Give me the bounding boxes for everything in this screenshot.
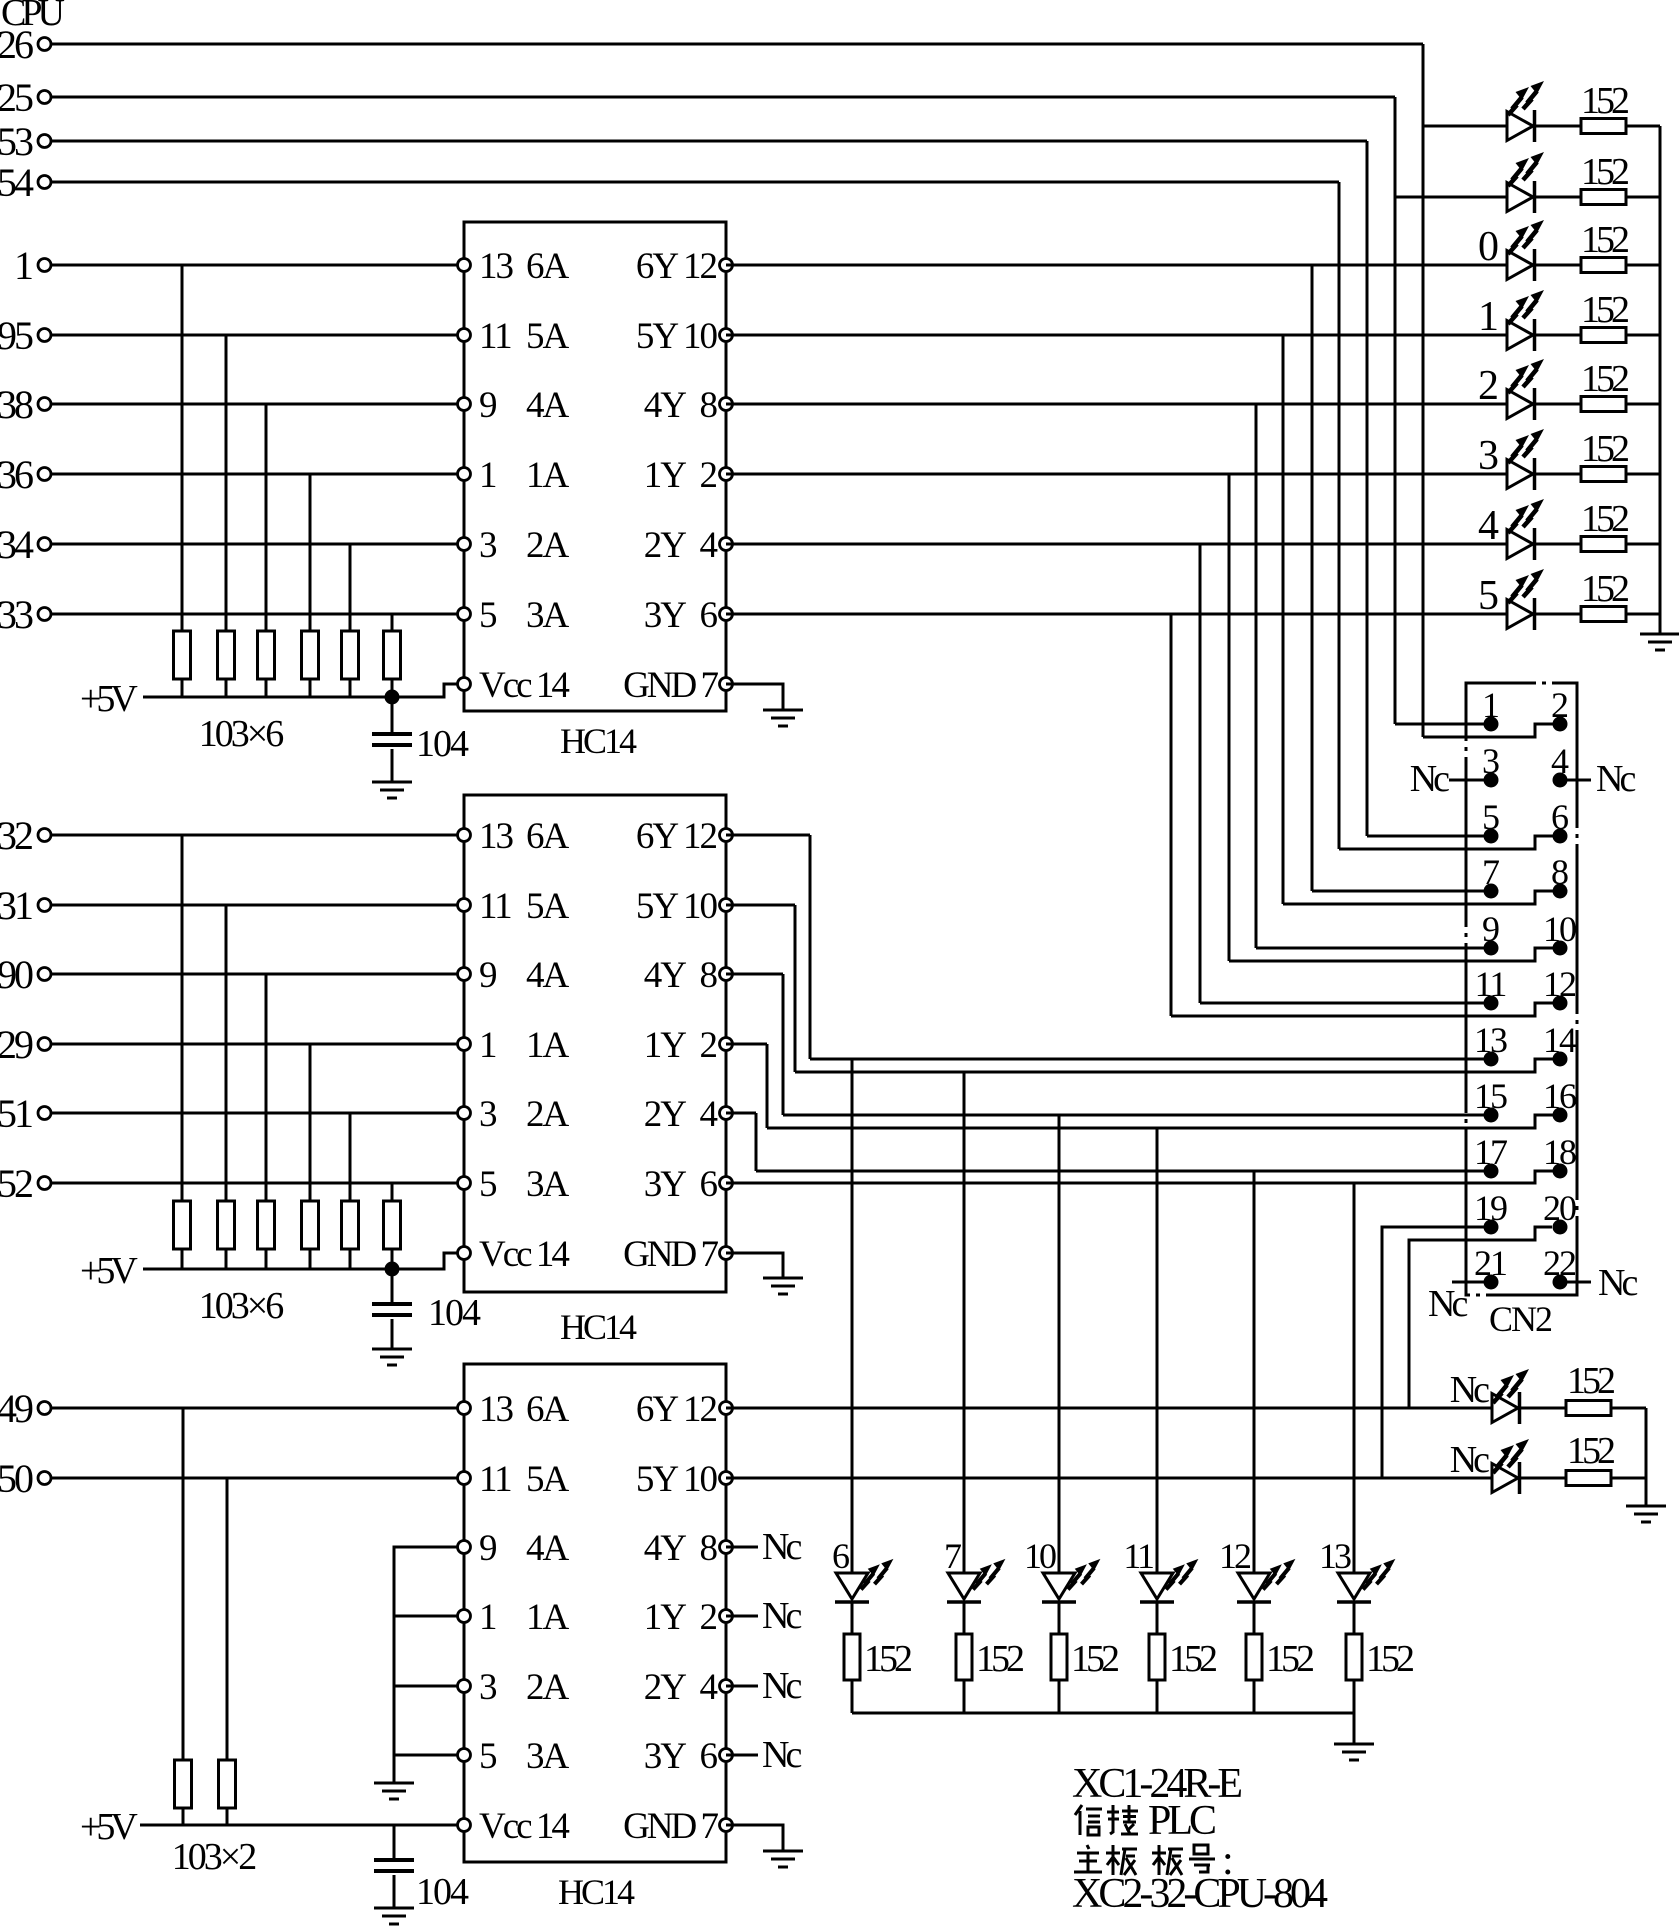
U3 output pin circle 0 bbox=[720, 1402, 733, 1415]
wire input 29 to U2 bbox=[51, 1043, 464, 1046]
wire CPU26 jog into pin2 bbox=[1423, 724, 1553, 737]
svg-text:Nc: Nc bbox=[762, 1595, 801, 1637]
U2 output pin circle 0 bbox=[720, 829, 733, 842]
resistor 103 pull-up 4 (U1) bbox=[302, 631, 319, 679]
CN2 pin 2 bbox=[1553, 717, 1568, 732]
wire resistor D14 to bus bbox=[1353, 1680, 1356, 1713]
wire resistor D2 to bus bbox=[1626, 196, 1660, 199]
svg-text:3A: 3A bbox=[526, 1736, 570, 1777]
U3 output Nc stub 0 bbox=[726, 1546, 758, 1549]
wire U1 output row 2 to LED bbox=[726, 403, 1507, 406]
svg-text:1Y 2: 1Y 2 bbox=[644, 455, 717, 496]
svg-text:Nc: Nc bbox=[1450, 1369, 1489, 1411]
wire U3 6Y12 row bbox=[726, 1407, 1492, 1410]
resistor 152 (D7) bbox=[1581, 537, 1626, 552]
wire pull-up tap 31 bbox=[225, 905, 228, 1201]
wire resistor D8 to bus bbox=[1626, 613, 1660, 616]
svg-text:3A: 3A bbox=[526, 1164, 570, 1205]
wire input 51 to U2 bbox=[51, 1112, 464, 1115]
svg-text:6Y 12: 6Y 12 bbox=[636, 816, 717, 857]
label 主板 板号: bbox=[1074, 1845, 1102, 1872]
svg-text:52: 52 bbox=[0, 1161, 32, 1206]
svg-text:Nc: Nc bbox=[1450, 1439, 1489, 1481]
U3 pin 5 circle bbox=[458, 1749, 471, 1762]
wire U2 5Y10 to corner bbox=[726, 904, 795, 907]
terminal circle 33 bbox=[38, 608, 51, 621]
wire input 32 to U2 bbox=[51, 834, 464, 837]
terminal circle 1 bbox=[38, 259, 51, 272]
U3 output pin circle 1 bbox=[720, 1472, 733, 1485]
wire U2 2Y4 down bbox=[755, 1113, 758, 1171]
LED D7 bbox=[1507, 528, 1535, 560]
capacitor C1 104 bbox=[372, 734, 412, 745]
wire pull-up tap 95 bbox=[225, 335, 228, 631]
junction +5V/cap U1 bbox=[385, 690, 400, 705]
LED D10 bbox=[947, 1573, 981, 1602]
wire U2 4Y8 to corner bbox=[726, 973, 783, 976]
svg-text:2Y 4: 2Y 4 bbox=[644, 1094, 718, 1135]
CN2 pin 16 bbox=[1553, 1108, 1568, 1123]
wire resistor D9 to bus bbox=[851, 1680, 854, 1713]
terminal circle 34 bbox=[38, 538, 51, 551]
svg-text:25: 25 bbox=[0, 75, 33, 120]
svg-text:152: 152 bbox=[1567, 1430, 1614, 1472]
U2 GND pin circle bbox=[720, 1247, 733, 1260]
capacitor C3 104 bbox=[374, 1860, 414, 1871]
svg-text:GND 7: GND 7 bbox=[623, 1234, 718, 1275]
svg-text:6A: 6A bbox=[526, 1389, 570, 1430]
wire tap to LED D14 bbox=[1353, 1183, 1356, 1573]
U2 output pin circle 4 bbox=[720, 1107, 733, 1120]
resistor 152 (D9) bbox=[844, 1634, 860, 1680]
svg-text:5A: 5A bbox=[526, 1459, 570, 1500]
resistor 152 (D2) bbox=[1581, 190, 1626, 205]
U3 pin 9 circle bbox=[458, 1541, 471, 1554]
svg-text:GND 7: GND 7 bbox=[623, 665, 718, 706]
svg-text:1: 1 bbox=[1478, 294, 1497, 340]
U2 Vcc pin circle bbox=[458, 1247, 471, 1260]
CN2 pin 1 bbox=[1484, 717, 1499, 732]
svg-text:152: 152 bbox=[1366, 1638, 1413, 1680]
U3 GND pin circle bbox=[720, 1819, 733, 1832]
svg-text:51: 51 bbox=[0, 1091, 32, 1136]
svg-text:4Y 8: 4Y 8 bbox=[644, 385, 718, 426]
wire resistor D7 to bus bbox=[1626, 543, 1660, 546]
op-amp U2 HC14 body bbox=[464, 795, 726, 1292]
svg-text:6: 6 bbox=[832, 1536, 849, 1576]
svg-text:PLC: PLC bbox=[1148, 1798, 1215, 1844]
wire U1 output 3 jog into CN2 bbox=[1229, 948, 1553, 961]
svg-text:54: 54 bbox=[0, 160, 34, 205]
wire resistor 2 to +5V rail (U1) bbox=[225, 679, 228, 697]
U3 output pin circle 5 bbox=[720, 1749, 733, 1762]
wire tap to LED D12 bbox=[1156, 1128, 1159, 1573]
svg-text:1: 1 bbox=[14, 243, 32, 288]
wire CPU26 vertical to CN2 pin2 bbox=[1422, 44, 1425, 737]
svg-text:+5V: +5V bbox=[80, 1250, 138, 1292]
U1 output pin circle 2 bbox=[720, 398, 733, 411]
svg-text:32: 32 bbox=[0, 813, 32, 858]
ground Nc LED bus bbox=[1626, 1506, 1666, 1522]
resistor 152 (D13) bbox=[1246, 1634, 1262, 1680]
CN2 pin21 Nc wire bbox=[1452, 1281, 1484, 1284]
terminal circle 95 bbox=[38, 329, 51, 342]
svg-text:3: 3 bbox=[479, 1667, 497, 1708]
wire cap C2 lower lead bbox=[391, 1319, 394, 1349]
svg-text:Nc: Nc bbox=[762, 1526, 801, 1568]
terminal circle 31 bbox=[38, 899, 51, 912]
U3 output Nc stub 1 bbox=[726, 1615, 758, 1618]
svg-text:4: 4 bbox=[1478, 503, 1499, 549]
wire LED D14 to resistor bbox=[1353, 1602, 1356, 1634]
wire CPU54 vertical to CN2 pin6 bbox=[1338, 182, 1341, 849]
wire U1 output 4 vertical to CN2 bbox=[1199, 544, 1202, 1003]
svg-text:2Y 4: 2Y 4 bbox=[644, 525, 718, 566]
U2 output pin circle 2 bbox=[720, 968, 733, 981]
wire LED D8 to resistor bbox=[1536, 613, 1581, 616]
svg-text:152: 152 bbox=[1567, 1360, 1614, 1402]
wire resistor 3 to +5V rail (U1) bbox=[265, 679, 268, 697]
wire LED D16 to resistor bbox=[1521, 1477, 1566, 1480]
wire net to CN2 pin14 bbox=[795, 1059, 1553, 1072]
wire U1 output 0 into CN2 bbox=[1312, 890, 1484, 893]
terminal circle 52 bbox=[38, 1177, 51, 1190]
svg-text:GND 7: GND 7 bbox=[623, 1806, 718, 1847]
wire resistor D4 to bus bbox=[1626, 334, 1660, 337]
U2 output pin circle 1 bbox=[720, 899, 733, 912]
resistor 152 (D4) bbox=[1581, 328, 1626, 343]
ground at U2 GND bbox=[763, 1278, 803, 1294]
CN2 pin 19 bbox=[1484, 1220, 1499, 1235]
svg-text:Vcc 14: Vcc 14 bbox=[479, 1234, 569, 1275]
CN2 pin 15 bbox=[1484, 1108, 1499, 1123]
U3 pin 11 circle bbox=[458, 1472, 471, 1485]
wire input 1 to U1 bbox=[51, 264, 464, 267]
svg-text:11: 11 bbox=[1123, 1536, 1153, 1576]
wire tap to LED D11 bbox=[1058, 1115, 1061, 1573]
svg-text:Nc: Nc bbox=[762, 1665, 801, 1707]
terminal circle 36 bbox=[38, 468, 51, 481]
LED D1 bbox=[1507, 110, 1535, 142]
wire LED D6 to resistor bbox=[1536, 473, 1581, 476]
wire pull-up tap 51 bbox=[349, 1113, 352, 1201]
wire resistor 1 to +5V rail (U1) bbox=[181, 679, 184, 697]
wire +5V rail U3 bbox=[140, 1824, 458, 1827]
LED D11 bbox=[1042, 1573, 1076, 1602]
ground at U1 GND bbox=[763, 710, 803, 726]
CN2 pin 18 bbox=[1553, 1164, 1568, 1179]
svg-text:4Y 8: 4Y 8 bbox=[644, 955, 718, 996]
wire pull-up tap 32 bbox=[181, 835, 184, 1201]
U1 output pin circle 3 bbox=[720, 468, 733, 481]
wire CPU54 horizontal bbox=[51, 181, 1339, 184]
wire U1 output row 4 to LED bbox=[726, 543, 1507, 546]
wire pull-up tap 90 bbox=[265, 974, 268, 1201]
wire bottom LED ground bus bbox=[852, 1712, 1354, 1715]
wire resistor D11 to bus bbox=[1058, 1680, 1061, 1713]
CN2 pin22 Nc wire bbox=[1567, 1281, 1591, 1284]
terminal circle 32 bbox=[38, 829, 51, 842]
svg-text:10: 10 bbox=[1024, 1536, 1056, 1576]
resistor 152 (D5) bbox=[1581, 397, 1626, 412]
resistor 152 (D12) bbox=[1149, 1634, 1165, 1680]
LED D13 bbox=[1237, 1573, 1271, 1602]
wire CPU25 into pin1 bbox=[1395, 723, 1484, 726]
LED D2 bbox=[1507, 181, 1535, 213]
LED D5 bbox=[1507, 388, 1535, 420]
svg-text:7: 7 bbox=[944, 1536, 961, 1576]
connector CN2 body bbox=[1466, 683, 1577, 1295]
svg-text:152: 152 bbox=[1581, 498, 1628, 540]
resistor 152 (D16) bbox=[1566, 1471, 1611, 1486]
svg-text:2A: 2A bbox=[526, 525, 570, 566]
svg-text:33: 33 bbox=[0, 592, 33, 637]
LED D15 bbox=[1492, 1392, 1520, 1424]
wire CPU25 horizontal bbox=[51, 96, 1395, 99]
wire U1 output 1 vertical to CN2 bbox=[1282, 335, 1285, 904]
wire U1 output 2 into CN2 bbox=[1256, 947, 1484, 950]
wire +5V rail to Vcc U2 bbox=[392, 1253, 458, 1269]
wire U1 output 1 jog into CN2 bbox=[1283, 891, 1553, 904]
wire input 52 to U2 bbox=[51, 1182, 464, 1185]
wire LED ground bus (top) bbox=[1659, 126, 1662, 634]
wire CN2 pin20 jog bbox=[1409, 1227, 1552, 1408]
svg-text:4A: 4A bbox=[526, 1528, 570, 1569]
U1 pin 3 circle bbox=[458, 538, 471, 551]
wire U2 2Y4 to corner bbox=[726, 1112, 756, 1115]
wire net to CN2 pin15 bbox=[783, 1114, 1484, 1117]
wire pull-up tap 34 bbox=[349, 544, 352, 631]
U1 GND pin circle bbox=[720, 678, 733, 691]
wire U2 6Y12 to corner bbox=[726, 834, 810, 837]
wire U1 output row 1 to LED bbox=[726, 334, 1507, 337]
wire pull-up tap 29 bbox=[309, 1044, 312, 1201]
U1 pin 1 circle bbox=[458, 468, 471, 481]
LED D12 bbox=[1140, 1573, 1174, 1602]
svg-text:2A: 2A bbox=[526, 1667, 570, 1708]
svg-text:1: 1 bbox=[479, 1025, 496, 1066]
wire LED D9 to resistor bbox=[851, 1602, 854, 1634]
svg-text:4A: 4A bbox=[526, 385, 570, 426]
svg-text:152: 152 bbox=[1169, 1638, 1216, 1680]
svg-text:90: 90 bbox=[0, 952, 33, 997]
svg-text:9: 9 bbox=[479, 385, 496, 426]
svg-text:Vcc 14: Vcc 14 bbox=[479, 1806, 569, 1847]
U2 pin 1 circle bbox=[458, 1038, 471, 1051]
CN2 pin 20 bbox=[1553, 1220, 1568, 1235]
LED D4 bbox=[1507, 319, 1535, 351]
resistor 103 pull-up 3 (U1) bbox=[258, 631, 275, 679]
U3 output pin circle 2 bbox=[720, 1541, 733, 1554]
svg-text:13: 13 bbox=[479, 246, 514, 287]
wire +5V rail U1 bbox=[143, 696, 392, 699]
svg-text:3: 3 bbox=[479, 525, 497, 566]
wire U1 output row 0 to LED bbox=[726, 264, 1507, 267]
wire resistor D15 to bus bbox=[1611, 1407, 1646, 1410]
svg-text:1A: 1A bbox=[526, 455, 570, 496]
svg-text:+5V: +5V bbox=[80, 678, 138, 720]
svg-text:4A: 4A bbox=[526, 955, 570, 996]
svg-text:6A: 6A bbox=[526, 816, 570, 857]
svg-text:9: 9 bbox=[479, 955, 496, 996]
resistor 152 (D11) bbox=[1051, 1634, 1067, 1680]
svg-text:3A: 3A bbox=[526, 595, 570, 636]
svg-text:Nc: Nc bbox=[1428, 1283, 1467, 1325]
wire pull-up tap 50 bbox=[226, 1478, 229, 1760]
wire cap C1 lower lead bbox=[391, 749, 394, 782]
ground top LED bus bbox=[1640, 634, 1679, 650]
svg-text:12: 12 bbox=[1219, 1536, 1251, 1576]
svg-text:1A: 1A bbox=[526, 1597, 570, 1638]
U1 output pin circle 1 bbox=[720, 329, 733, 342]
svg-text:2A: 2A bbox=[526, 1094, 570, 1135]
wire resistor 2 to +5V rail (U3) bbox=[226, 1808, 229, 1825]
CN2 pin 22 bbox=[1553, 1275, 1568, 1290]
ground below C2 bbox=[372, 1349, 412, 1365]
wire LED D13 to resistor bbox=[1253, 1602, 1256, 1634]
wire U3 5Y10 row bbox=[726, 1477, 1492, 1480]
svg-text:6A: 6A bbox=[526, 246, 570, 287]
wire U1 output row 5 to LED bbox=[726, 613, 1507, 616]
svg-text:5: 5 bbox=[479, 1736, 497, 1777]
U3 output pin circle 3 bbox=[720, 1610, 733, 1623]
resistor 103 pull-up 1 (U3) bbox=[175, 1760, 192, 1808]
wire LED D10 to resistor bbox=[963, 1602, 966, 1634]
wire LED D5 to resistor bbox=[1536, 403, 1581, 406]
ground below C3 bbox=[374, 1908, 414, 1924]
svg-text:152: 152 bbox=[1581, 428, 1628, 470]
ground unused inputs U3 bbox=[374, 1783, 414, 1799]
svg-text:3: 3 bbox=[1478, 433, 1498, 479]
svg-text:103×6: 103×6 bbox=[199, 713, 283, 755]
U2 pin 9 circle bbox=[458, 968, 471, 981]
svg-text:3: 3 bbox=[479, 1094, 497, 1135]
resistor 103 pull-up 5 (U2) bbox=[342, 1201, 359, 1249]
svg-text:103×2: 103×2 bbox=[172, 1836, 255, 1878]
svg-text:38: 38 bbox=[0, 382, 33, 427]
resistor 103 pull-up 2 (U1) bbox=[218, 631, 235, 679]
wire CPU54 jog into pin6 bbox=[1339, 836, 1553, 849]
wire resistor D13 to bus bbox=[1253, 1680, 1256, 1713]
svg-text:5: 5 bbox=[479, 595, 497, 636]
svg-text:3Y 6: 3Y 6 bbox=[644, 1164, 718, 1205]
CN2 pin 10 bbox=[1553, 941, 1568, 956]
resistor 103 pull-up 2 (U3) bbox=[219, 1760, 236, 1808]
ground at U3 GND bbox=[763, 1851, 803, 1867]
wire U3 unused input chain bbox=[394, 1547, 457, 1783]
wire resistor D6 to bus bbox=[1626, 473, 1660, 476]
U1 output pin circle 5 bbox=[720, 608, 733, 621]
svg-text:152: 152 bbox=[976, 1638, 1023, 1680]
wire U1 output row 3 to LED bbox=[726, 473, 1507, 476]
wire input 50 to U3 bbox=[51, 1477, 464, 1480]
wire net to CN2 pin13 bbox=[810, 1058, 1484, 1061]
CN2 pin 12 bbox=[1553, 996, 1568, 1011]
wire input 31 to U2 bbox=[51, 904, 464, 907]
wire +5V rail to Vcc U1 bbox=[392, 684, 458, 697]
wire U1 output 5 vertical to CN2 bbox=[1170, 614, 1173, 1016]
wire U2 3Y6 to CN2 pin18 bbox=[726, 1171, 1553, 1183]
resistor 152 (D14) bbox=[1346, 1634, 1362, 1680]
wire input 49 to U3 bbox=[51, 1407, 464, 1410]
wire cap C2 upper lead bbox=[391, 1269, 394, 1304]
U1 pin 9 circle bbox=[458, 398, 471, 411]
resistor 103 pull-up 1 (U1) bbox=[174, 631, 191, 679]
U1 pin 11 circle bbox=[458, 329, 471, 342]
svg-text:26: 26 bbox=[0, 22, 33, 67]
CN2 pin 7 bbox=[1484, 884, 1499, 899]
svg-text:Vcc 14: Vcc 14 bbox=[479, 665, 569, 706]
svg-text:0: 0 bbox=[1478, 224, 1498, 270]
terminal circle 51 bbox=[38, 1107, 51, 1120]
U2 pin 11 circle bbox=[458, 899, 471, 912]
U2 output pin circle 5 bbox=[720, 1177, 733, 1190]
svg-text:13: 13 bbox=[479, 816, 514, 857]
wire CPU53 into pin5 bbox=[1367, 835, 1484, 838]
svg-text:1: 1 bbox=[479, 455, 496, 496]
wire pull-up tap 49 bbox=[182, 1408, 185, 1760]
svg-text:6Y 12: 6Y 12 bbox=[636, 246, 717, 287]
svg-text:2Y 4: 2Y 4 bbox=[644, 1667, 718, 1708]
svg-text:11: 11 bbox=[479, 316, 511, 357]
U3 Vcc pin circle bbox=[458, 1819, 471, 1832]
resistor 103 pull-up 6 (U1) bbox=[384, 631, 401, 679]
svg-text:11: 11 bbox=[479, 1459, 511, 1500]
svg-text:Nc: Nc bbox=[1598, 1262, 1637, 1304]
wire U1 output 0 vertical to CN2 bbox=[1311, 265, 1314, 891]
svg-text:Nc: Nc bbox=[762, 1734, 801, 1776]
svg-text:95: 95 bbox=[0, 313, 33, 358]
wire resistor D16 to bus bbox=[1611, 1477, 1646, 1480]
wire LED D1 to resistor bbox=[1536, 125, 1581, 128]
LED D8 bbox=[1507, 598, 1535, 630]
svg-text:9: 9 bbox=[479, 1528, 496, 1569]
terminal circle CPU 26 bbox=[38, 38, 51, 51]
wire cap C3 lower lead bbox=[393, 1875, 396, 1908]
wire input 95 to U1 bbox=[51, 334, 464, 337]
terminal circle 29 bbox=[38, 1038, 51, 1051]
terminal circle 50 bbox=[38, 1472, 51, 1485]
wire net to CN2 pin16 bbox=[767, 1115, 1553, 1128]
svg-text:XC2-32-CPU-804: XC2-32-CPU-804 bbox=[1072, 1871, 1328, 1917]
wire to LED D2 bbox=[1395, 196, 1507, 199]
svg-text:1: 1 bbox=[479, 1597, 496, 1638]
U3 output Nc stub 2 bbox=[726, 1685, 758, 1688]
svg-text:152: 152 bbox=[1071, 1638, 1118, 1680]
svg-text:34: 34 bbox=[0, 522, 34, 567]
wire LED D15 to resistor bbox=[1521, 1407, 1566, 1410]
label 信捷 PLC bbox=[1075, 1805, 1102, 1835]
wire tap to LED D9 bbox=[851, 1059, 854, 1573]
wire resistor 6 to +5V rail (U2) bbox=[391, 1249, 394, 1269]
svg-text:HC14: HC14 bbox=[558, 1872, 635, 1912]
terminal circle 38 bbox=[38, 398, 51, 411]
svg-text:152: 152 bbox=[1581, 80, 1628, 122]
wire resistor D1 to bus bbox=[1626, 125, 1660, 128]
wire cap C3 upper lead bbox=[393, 1825, 396, 1860]
U3 pin 1 circle bbox=[458, 1610, 471, 1623]
CN2 pin 13 bbox=[1484, 1052, 1499, 1067]
resistor 152 (D1) bbox=[1581, 119, 1626, 134]
wire Nc LED ground bus bbox=[1645, 1408, 1648, 1506]
wire net to CN2 pin17 bbox=[756, 1170, 1484, 1173]
svg-text:31: 31 bbox=[0, 883, 32, 928]
wire input 34 to U1 bbox=[51, 543, 464, 546]
wire CPU26 horizontal bbox=[51, 43, 1423, 46]
svg-text:152: 152 bbox=[1581, 568, 1628, 610]
wire U1 GND to ground bbox=[726, 684, 783, 710]
CN2 pin 3 bbox=[1484, 773, 1499, 788]
